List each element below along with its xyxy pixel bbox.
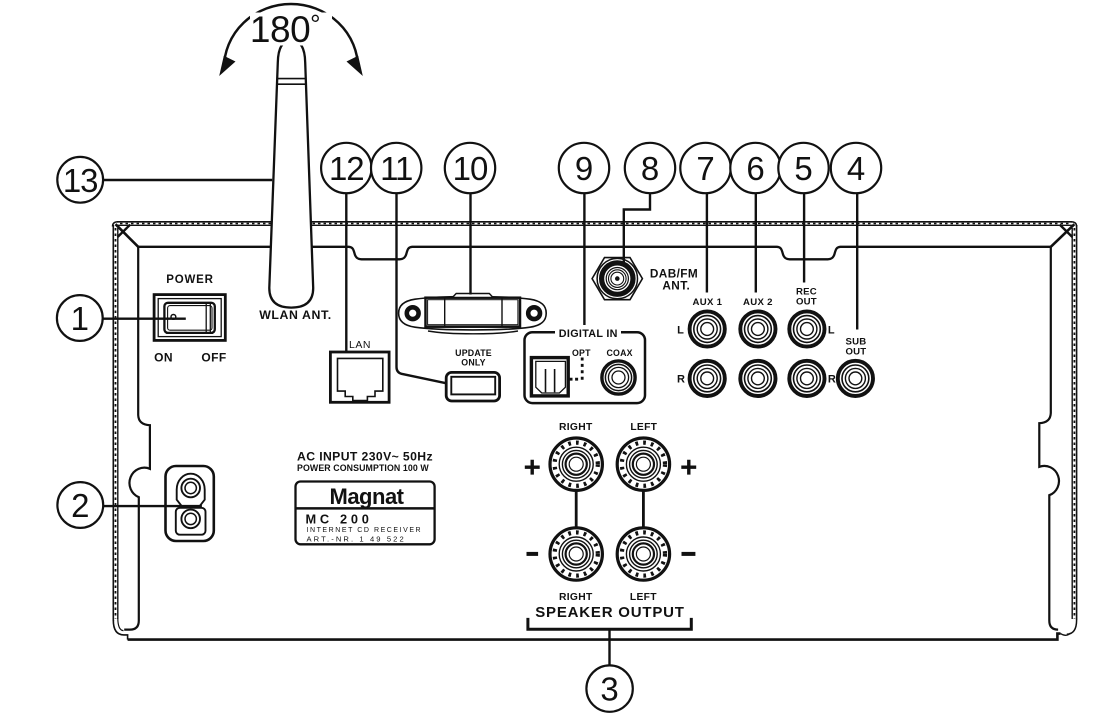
AC power inlet (item 2) bbox=[166, 466, 214, 541]
svg-text:AUX 1: AUX 1 bbox=[693, 297, 723, 308]
DAB/FM antenna connector (item 8) bbox=[592, 258, 642, 300]
RCA jack SUB OUT bbox=[838, 361, 873, 396]
svg-text:10: 10 bbox=[453, 150, 488, 187]
bracket under SPEAKER OUTPUT bbox=[526, 618, 692, 629]
RCA jack AUX2 L bbox=[740, 311, 775, 346]
plate top cap bbox=[453, 294, 494, 298]
callout line 9 bbox=[583, 193, 585, 325]
callout line 12 bbox=[345, 193, 347, 352]
svg-text:UPDATE: UPDATE bbox=[455, 348, 492, 358]
callout circle 11 bbox=[371, 143, 421, 193]
callout circle 10 bbox=[445, 143, 495, 193]
COAX RCA jack bbox=[602, 361, 635, 394]
RCA jack REC OUT R bbox=[789, 361, 824, 396]
USB update port bbox=[446, 372, 499, 401]
chassis top edge (double line) bbox=[113, 222, 1077, 227]
svg-text:5: 5 bbox=[794, 150, 812, 187]
callout line 6 bbox=[755, 193, 757, 293]
svg-text:8: 8 bbox=[641, 150, 659, 187]
callout line 5 bbox=[803, 193, 805, 283]
chassis right edge (hatched double line) bbox=[1061, 225, 1077, 635]
svg-text:MC 200: MC 200 bbox=[306, 511, 373, 526]
callout circle 5 bbox=[778, 143, 828, 193]
svg-text:RIGHT: RIGHT bbox=[559, 592, 593, 603]
minus sign left bbox=[527, 552, 539, 556]
svg-text:OPT: OPT bbox=[572, 348, 591, 358]
antenna mount plate (item 10) bbox=[399, 297, 547, 334]
callout line 10 bbox=[469, 193, 471, 295]
plus sign left bbox=[525, 460, 540, 475]
svg-text:OUT: OUT bbox=[845, 347, 866, 358]
RCA jack REC OUT L bbox=[789, 311, 824, 346]
svg-text:2: 2 bbox=[71, 487, 89, 524]
RCA jack AUX2 R bbox=[740, 361, 775, 396]
svg-text:7: 7 bbox=[696, 150, 714, 187]
svg-text:4: 4 bbox=[847, 150, 865, 187]
svg-text:3: 3 bbox=[600, 671, 618, 708]
callout line 4 bbox=[856, 193, 858, 330]
callout circle 1 bbox=[57, 295, 103, 341]
svg-text:DIGITAL IN: DIGITAL IN bbox=[559, 328, 618, 340]
DIGITAL IN group box bbox=[525, 332, 646, 403]
svg-text:ONLY: ONLY bbox=[461, 358, 485, 368]
callout circle 8 bbox=[625, 143, 675, 193]
svg-text:WLAN ANT.: WLAN ANT. bbox=[259, 308, 332, 322]
plus sign right bbox=[681, 460, 696, 475]
svg-text:POWER: POWER bbox=[166, 274, 213, 286]
Magnat type label bbox=[296, 482, 435, 545]
svg-text:RIGHT: RIGHT bbox=[559, 422, 593, 433]
svg-text:AC INPUT 230V~ 50Hz: AC INPUT 230V~ 50Hz bbox=[297, 450, 433, 464]
dotted leader from OPT to toslink bbox=[581, 358, 584, 382]
callout line 7 bbox=[706, 193, 708, 293]
svg-text:13: 13 bbox=[63, 162, 98, 199]
right arrowhead bbox=[347, 56, 363, 76]
rear panel face left edge with jog and cable bump bbox=[124, 247, 150, 630]
svg-text:180°: 180° bbox=[250, 9, 320, 50]
svg-text:ANT.: ANT. bbox=[662, 279, 690, 293]
speaker terminal LEFT + bbox=[617, 438, 669, 490]
svg-text:6: 6 bbox=[746, 150, 764, 187]
callout circle 7 bbox=[680, 143, 730, 193]
svg-text:L: L bbox=[677, 324, 684, 336]
callout line 11 bbox=[397, 193, 447, 383]
svg-text:11: 11 bbox=[380, 150, 412, 187]
speaker terminal RIGHT + bbox=[550, 438, 602, 490]
callout line 8 bbox=[624, 193, 650, 263]
callout circle 3 bbox=[586, 665, 632, 711]
svg-text:POWER CONSUMPTION 100 W: POWER CONSUMPTION 100 W bbox=[297, 463, 429, 473]
top-left corner diagonal and X mark bbox=[116, 224, 139, 247]
RCA jack AUX1 R bbox=[690, 361, 725, 396]
svg-text:LEFT: LEFT bbox=[630, 592, 657, 603]
svg-text:L: L bbox=[828, 324, 835, 336]
left arrowhead bbox=[219, 56, 235, 76]
callout circle 4 bbox=[831, 143, 881, 193]
svg-text:OUT: OUT bbox=[796, 297, 817, 308]
callout line 1 bbox=[103, 318, 186, 320]
svg-text:Magnat: Magnat bbox=[330, 484, 405, 509]
svg-text:AUX 2: AUX 2 bbox=[743, 297, 773, 308]
svg-text:COAX: COAX bbox=[606, 348, 632, 358]
callout line 3 bbox=[608, 629, 610, 665]
180 degree rotation arc bbox=[224, 4, 358, 68]
callout circle 6 bbox=[730, 143, 780, 193]
callout circle 9 bbox=[559, 143, 609, 193]
svg-text:ON: ON bbox=[154, 351, 173, 365]
power switch bbox=[154, 295, 225, 341]
callout line 13 bbox=[103, 179, 272, 181]
svg-text:SPEAKER OUTPUT: SPEAKER OUTPUT bbox=[535, 604, 685, 621]
svg-text:R: R bbox=[677, 374, 685, 386]
180 degree text bbox=[250, 13, 332, 46]
chassis bottom edge bbox=[128, 634, 1061, 640]
chassis left edge (hatched double line) bbox=[113, 225, 127, 640]
svg-text:INTERNET CD RECEIVER: INTERNET CD RECEIVER bbox=[307, 527, 423, 534]
rear panel face right edge with jog and cable bump bbox=[1039, 247, 1059, 630]
svg-text:OFF: OFF bbox=[201, 351, 226, 365]
callout circle 12 bbox=[321, 143, 371, 193]
speaker terminal LEFT - bbox=[617, 528, 669, 580]
optical TOSLINK connector bbox=[531, 358, 568, 396]
rear panel face top edge with two notches bbox=[138, 247, 1051, 259]
WLAN antenna (occludes chassis edges) bbox=[269, 40, 313, 307]
top-right corner diagonal and X mark bbox=[1051, 224, 1075, 247]
callout circle 2 bbox=[57, 482, 103, 528]
speaker terminal RIGHT - bbox=[550, 528, 602, 580]
svg-text:LAN: LAN bbox=[349, 339, 371, 351]
RCA jack AUX1 L bbox=[690, 311, 725, 346]
svg-text:ART.-NR. 1 49 522: ART.-NR. 1 49 522 bbox=[307, 534, 406, 543]
svg-text:R: R bbox=[828, 374, 836, 386]
callout line 2 bbox=[103, 505, 202, 507]
svg-text:LEFT: LEFT bbox=[630, 422, 657, 433]
svg-text:12: 12 bbox=[329, 150, 364, 187]
callout circle 13 bbox=[57, 157, 103, 203]
LAN port bbox=[330, 352, 389, 402]
link lines between terminals bbox=[575, 491, 578, 528]
svg-text:1: 1 bbox=[71, 300, 89, 337]
minus sign right bbox=[682, 552, 696, 556]
svg-text:9: 9 bbox=[575, 150, 593, 187]
